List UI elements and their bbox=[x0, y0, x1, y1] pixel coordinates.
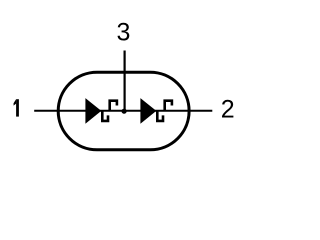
svg-text:2: 2 bbox=[221, 96, 235, 124]
wire pin 1 to D1 anode bbox=[34, 110, 86, 112]
diode D1 cathode step mark upper hook bbox=[110, 101, 117, 112]
wire D2 cathode to pin 2 bbox=[142, 110, 213, 112]
package outline bbox=[58, 72, 189, 150]
diode D2 cathode step mark lower hook bbox=[157, 110, 163, 121]
wire node 3 junction to D2 anode bbox=[124, 110, 141, 112]
wire D1 cathode to node 3 junction bbox=[86, 110, 124, 112]
pin 1 label bbox=[14, 99, 19, 116]
diode D2 cathode step mark upper hook bbox=[165, 101, 172, 112]
diode D2 triangle (anode at node 3) bbox=[140, 98, 156, 124]
junction node 3 dot bbox=[122, 109, 127, 114]
diode D1 triangle (anode at pin 1) bbox=[85, 98, 101, 124]
diode D1 cathode step mark lower hook bbox=[102, 110, 108, 121]
wire pin 3 to junction bbox=[123, 51, 125, 112]
svg-text:3: 3 bbox=[116, 19, 130, 47]
